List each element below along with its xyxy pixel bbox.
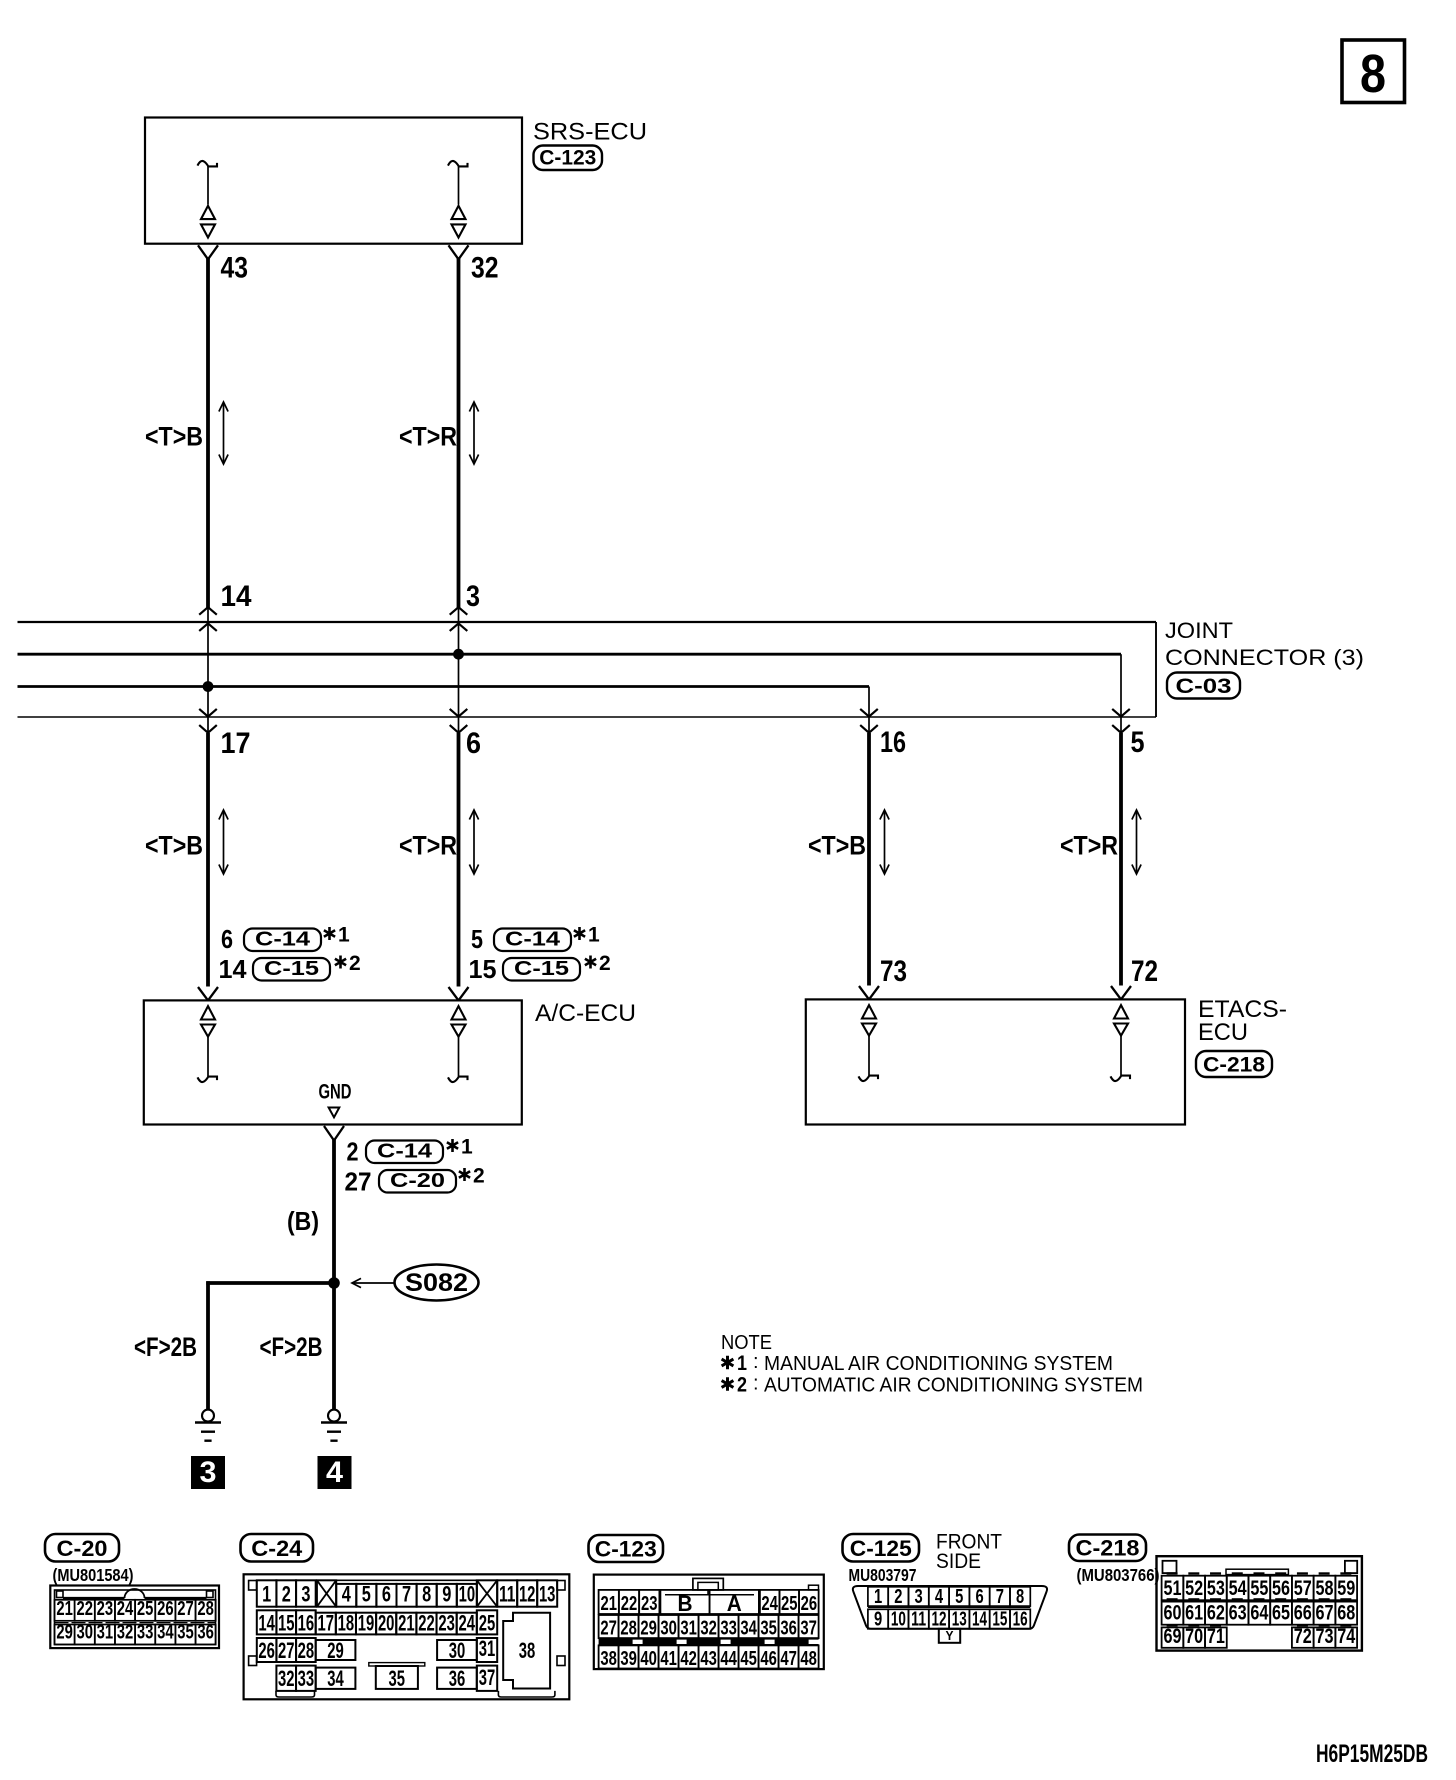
svg-text:6: 6 xyxy=(221,924,233,954)
svg-text:73: 73 xyxy=(1316,1625,1334,1648)
svg-text:32: 32 xyxy=(700,1618,717,1640)
svg-text:64: 64 xyxy=(1250,1602,1268,1625)
svg-text:33: 33 xyxy=(298,1666,315,1691)
svg-text:34: 34 xyxy=(327,1666,344,1691)
svg-text:30: 30 xyxy=(76,1622,93,1644)
svg-text:36: 36 xyxy=(780,1618,797,1640)
svg-text:3: 3 xyxy=(301,1582,310,1607)
svg-text:2: 2 xyxy=(894,1586,902,1608)
svg-text:C-24: C-24 xyxy=(251,1536,303,1561)
svg-text:14: 14 xyxy=(972,1609,988,1631)
svg-text:14: 14 xyxy=(258,1611,275,1636)
svg-text:37: 37 xyxy=(800,1618,817,1640)
svg-text:5: 5 xyxy=(1131,726,1145,759)
svg-text:10: 10 xyxy=(459,1582,476,1607)
svg-text:32: 32 xyxy=(471,252,499,285)
svg-text:52: 52 xyxy=(1185,1577,1203,1600)
svg-text:27: 27 xyxy=(278,1638,295,1663)
svg-text:7: 7 xyxy=(402,1582,411,1607)
svg-text:12: 12 xyxy=(931,1609,946,1631)
svg-text:23: 23 xyxy=(438,1611,455,1636)
svg-text:1: 1 xyxy=(262,1582,271,1607)
svg-text:26: 26 xyxy=(258,1638,275,1663)
svg-text:21: 21 xyxy=(398,1611,415,1636)
svg-text:7: 7 xyxy=(996,1586,1004,1608)
svg-text:<T>B: <T>B xyxy=(145,831,203,861)
svg-text:56: 56 xyxy=(1272,1577,1290,1600)
svg-text:67: 67 xyxy=(1316,1602,1334,1625)
svg-text:72: 72 xyxy=(1131,955,1158,988)
svg-text:58: 58 xyxy=(1316,1577,1334,1600)
svg-text:68: 68 xyxy=(1337,1602,1355,1625)
svg-text:38: 38 xyxy=(519,1638,536,1663)
svg-text:SIDE: SIDE xyxy=(936,1550,981,1573)
svg-text:23: 23 xyxy=(97,1598,114,1620)
svg-text:JOINT: JOINT xyxy=(1165,618,1233,643)
svg-text:41: 41 xyxy=(660,1648,677,1670)
svg-text:60: 60 xyxy=(1163,1602,1181,1625)
svg-text:33: 33 xyxy=(720,1618,737,1640)
svg-text:18: 18 xyxy=(338,1611,355,1636)
svg-text:53: 53 xyxy=(1207,1577,1225,1600)
svg-text:22: 22 xyxy=(621,1593,638,1615)
svg-text:42: 42 xyxy=(680,1648,697,1670)
svg-text:26: 26 xyxy=(801,1593,818,1615)
svg-text:31: 31 xyxy=(479,1636,496,1661)
svg-text:27: 27 xyxy=(177,1598,194,1620)
svg-text:62: 62 xyxy=(1207,1602,1225,1625)
svg-text:15: 15 xyxy=(278,1611,295,1636)
svg-text:5: 5 xyxy=(362,1582,371,1607)
svg-text:31: 31 xyxy=(97,1622,114,1644)
svg-text:11: 11 xyxy=(499,1582,516,1607)
svg-text:21: 21 xyxy=(600,1593,617,1615)
svg-text:35: 35 xyxy=(389,1666,406,1691)
svg-text:4: 4 xyxy=(935,1586,944,1608)
svg-text:28: 28 xyxy=(620,1618,637,1640)
svg-text:C-03: C-03 xyxy=(1176,675,1232,698)
svg-text:5: 5 xyxy=(471,924,483,954)
svg-text:21: 21 xyxy=(56,1598,73,1620)
svg-text:C-14: C-14 xyxy=(255,929,311,951)
svg-text:25: 25 xyxy=(479,1611,496,1636)
svg-text:5: 5 xyxy=(955,1586,963,1608)
svg-text:6: 6 xyxy=(975,1586,983,1608)
svg-text:31: 31 xyxy=(680,1618,697,1640)
svg-text:29: 29 xyxy=(640,1618,657,1640)
svg-text:23: 23 xyxy=(641,1593,658,1615)
svg-text:(MU803766): (MU803766) xyxy=(1077,1565,1160,1585)
svg-text:<F>2B: <F>2B xyxy=(134,1332,197,1362)
svg-text:22: 22 xyxy=(76,1598,93,1620)
svg-text:66: 66 xyxy=(1294,1602,1312,1625)
svg-text:CONNECTOR (3): CONNECTOR (3) xyxy=(1165,645,1364,670)
svg-text:2: 2 xyxy=(737,1374,747,1397)
svg-text:15: 15 xyxy=(992,1609,1007,1631)
svg-text:<T>B: <T>B xyxy=(808,831,866,861)
svg-text:61: 61 xyxy=(1185,1602,1203,1625)
svg-text:46: 46 xyxy=(760,1648,777,1670)
svg-text:71: 71 xyxy=(1207,1625,1225,1648)
svg-text:(MU801584): (MU801584) xyxy=(53,1565,134,1585)
svg-text:36: 36 xyxy=(197,1622,214,1644)
svg-text:45: 45 xyxy=(740,1648,757,1670)
svg-text:17: 17 xyxy=(221,727,251,760)
svg-text:13: 13 xyxy=(539,1582,556,1607)
svg-text:A/C-ECU: A/C-ECU xyxy=(535,1000,636,1027)
svg-text:ECU: ECU xyxy=(1198,1019,1248,1046)
svg-text::: : xyxy=(753,1373,759,1395)
svg-text:14: 14 xyxy=(221,580,252,613)
svg-text:57: 57 xyxy=(1294,1577,1312,1600)
svg-text:<T>R: <T>R xyxy=(399,831,457,861)
svg-text:1: 1 xyxy=(461,1136,473,1159)
svg-text:1: 1 xyxy=(737,1352,747,1375)
svg-text:47: 47 xyxy=(780,1648,797,1670)
svg-text:34: 34 xyxy=(157,1622,174,1644)
svg-text:39: 39 xyxy=(620,1648,637,1670)
svg-text:20: 20 xyxy=(378,1611,395,1636)
svg-text:13: 13 xyxy=(952,1609,967,1631)
svg-text:AUTOMATIC AIR CONDITIONING SYS: AUTOMATIC AIR CONDITIONING SYSTEM xyxy=(764,1375,1143,1397)
svg-text:6: 6 xyxy=(466,727,481,760)
svg-text:63: 63 xyxy=(1229,1602,1247,1625)
svg-text:1: 1 xyxy=(588,924,600,947)
svg-text:4: 4 xyxy=(342,1582,352,1607)
svg-text:C-15: C-15 xyxy=(514,958,569,980)
svg-text:C-14: C-14 xyxy=(377,1141,433,1163)
svg-text:28: 28 xyxy=(197,1598,214,1620)
svg-text:C-14: C-14 xyxy=(505,929,561,951)
svg-text:C-20: C-20 xyxy=(57,1536,108,1561)
svg-text:C-123: C-123 xyxy=(595,1537,657,1562)
svg-text::: : xyxy=(753,1351,759,1373)
svg-text:2: 2 xyxy=(347,1137,359,1167)
svg-text:43: 43 xyxy=(221,252,249,285)
svg-text:SRS-ECU: SRS-ECU xyxy=(533,119,647,146)
svg-text:3: 3 xyxy=(915,1586,923,1608)
svg-text:29: 29 xyxy=(56,1622,73,1644)
svg-text:35: 35 xyxy=(177,1622,194,1644)
svg-text:34: 34 xyxy=(740,1618,757,1640)
svg-text:37: 37 xyxy=(479,1665,496,1690)
svg-text:22: 22 xyxy=(418,1611,435,1636)
svg-text:28: 28 xyxy=(298,1638,315,1663)
svg-text:70: 70 xyxy=(1185,1625,1203,1648)
svg-text:4: 4 xyxy=(326,1456,343,1489)
svg-text:C-15: C-15 xyxy=(264,958,319,980)
svg-text:16: 16 xyxy=(298,1611,315,1636)
svg-text:<F>2B: <F>2B xyxy=(260,1332,323,1362)
svg-text:24: 24 xyxy=(459,1611,476,1636)
svg-text:14: 14 xyxy=(219,954,248,984)
svg-text:30: 30 xyxy=(660,1618,677,1640)
svg-text:35: 35 xyxy=(760,1618,777,1640)
svg-text:15: 15 xyxy=(469,954,497,984)
svg-text:GND: GND xyxy=(319,1081,352,1104)
svg-text:2: 2 xyxy=(349,952,361,975)
svg-text:C-218: C-218 xyxy=(1076,1536,1140,1561)
svg-text:(B): (B) xyxy=(287,1206,319,1236)
svg-text:65: 65 xyxy=(1272,1602,1290,1625)
svg-text:12: 12 xyxy=(519,1582,536,1607)
svg-text:2: 2 xyxy=(473,1165,485,1188)
svg-text:72: 72 xyxy=(1294,1625,1312,1648)
svg-text:73: 73 xyxy=(880,955,907,988)
svg-text:1: 1 xyxy=(338,924,350,947)
svg-text:44: 44 xyxy=(720,1648,737,1670)
svg-text:26: 26 xyxy=(157,1598,174,1620)
svg-text:19: 19 xyxy=(358,1611,375,1636)
svg-text:2: 2 xyxy=(599,952,611,975)
svg-text:<T>R: <T>R xyxy=(1060,831,1118,861)
svg-text:69: 69 xyxy=(1163,1625,1181,1648)
svg-text:51: 51 xyxy=(1163,1577,1181,1600)
svg-text:C-218: C-218 xyxy=(1203,1054,1265,1077)
svg-text:27: 27 xyxy=(345,1167,372,1197)
svg-text:<T>B: <T>B xyxy=(145,422,203,452)
svg-text:8: 8 xyxy=(422,1582,431,1607)
svg-text:25: 25 xyxy=(781,1593,798,1615)
svg-text:6: 6 xyxy=(382,1582,391,1607)
svg-text:C-125: C-125 xyxy=(850,1536,912,1561)
svg-text:16: 16 xyxy=(1013,1609,1028,1631)
svg-text:9: 9 xyxy=(874,1609,882,1631)
svg-text:48: 48 xyxy=(800,1648,817,1670)
svg-text:S082: S082 xyxy=(405,1269,468,1297)
svg-text:C-123: C-123 xyxy=(539,147,596,170)
svg-text:3: 3 xyxy=(200,1456,217,1489)
svg-text:24: 24 xyxy=(117,1598,134,1620)
svg-text:54: 54 xyxy=(1229,1577,1247,1600)
svg-text:<T>R: <T>R xyxy=(399,422,457,452)
svg-text:59: 59 xyxy=(1337,1577,1355,1600)
svg-text:H6P15M25DB: H6P15M25DB xyxy=(1316,1740,1428,1768)
svg-text:Y: Y xyxy=(946,1628,954,1643)
svg-text:40: 40 xyxy=(640,1648,657,1670)
svg-text:2: 2 xyxy=(282,1582,291,1607)
svg-text:17: 17 xyxy=(318,1611,335,1636)
svg-text:MU803797: MU803797 xyxy=(849,1565,917,1585)
svg-text:10: 10 xyxy=(891,1609,906,1631)
svg-text:C-20: C-20 xyxy=(390,1170,445,1192)
svg-text:MANUAL AIR CONDITIONING SYSTEM: MANUAL AIR CONDITIONING SYSTEM xyxy=(764,1353,1113,1375)
svg-text:1: 1 xyxy=(874,1586,882,1608)
svg-text:32: 32 xyxy=(117,1622,134,1644)
svg-text:29: 29 xyxy=(327,1638,344,1663)
svg-text:3: 3 xyxy=(466,580,480,613)
svg-text:33: 33 xyxy=(137,1622,154,1644)
svg-text:30: 30 xyxy=(449,1638,466,1663)
svg-text:9: 9 xyxy=(442,1582,451,1607)
svg-text:43: 43 xyxy=(700,1648,717,1670)
svg-text:8: 8 xyxy=(1360,44,1386,104)
svg-text:24: 24 xyxy=(761,1593,778,1615)
svg-text:36: 36 xyxy=(449,1666,466,1691)
svg-text:25: 25 xyxy=(137,1598,154,1620)
svg-text:16: 16 xyxy=(880,726,906,759)
svg-text:55: 55 xyxy=(1250,1577,1268,1600)
svg-text:11: 11 xyxy=(911,1609,926,1631)
svg-text:32: 32 xyxy=(278,1666,295,1691)
svg-text:NOTE: NOTE xyxy=(721,1332,772,1354)
svg-text:8: 8 xyxy=(1016,1586,1024,1608)
svg-text:74: 74 xyxy=(1337,1625,1355,1648)
svg-text:27: 27 xyxy=(600,1618,617,1640)
svg-text:38: 38 xyxy=(600,1648,617,1670)
